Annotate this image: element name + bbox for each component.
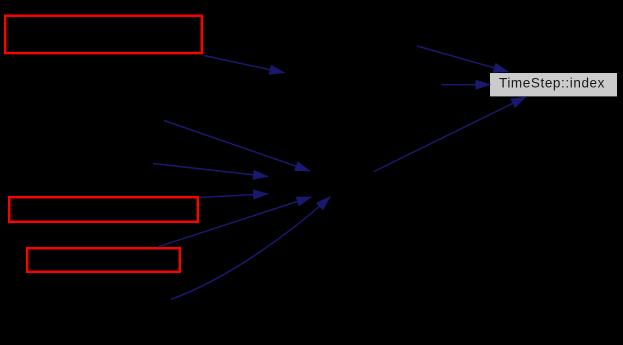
- edge hidden M1 -> TimeStep::index (horizontal): [441, 84, 490, 86]
- node TimeStep::index (current node, gray): [490, 73, 617, 96]
- edge hidden N2 -> hidden M2: [153, 164, 268, 177]
- node R3 (truncated caller, red box): [27, 248, 180, 272]
- node R1 (truncated caller, red box, 2-line): [5, 16, 202, 53]
- edge R1 -> hidden node M1: [204, 56, 285, 73]
- edge hidden M2 -> TimeStep::index: [374, 97, 526, 172]
- edge hidden N3 -> hidden M2 (curved): [171, 197, 331, 300]
- edge hidden M0 -> TimeStep::index (top): [417, 46, 509, 72]
- edge R2 -> hidden M2: [200, 194, 268, 198]
- edge R3 -> hidden M2: [158, 197, 312, 247]
- edge hidden N1 -> hidden M2: [164, 121, 310, 172]
- svg-text:TimeStep::index: TimeStep::index: [499, 75, 605, 90]
- node R2 (truncated caller, red box): [9, 197, 198, 222]
